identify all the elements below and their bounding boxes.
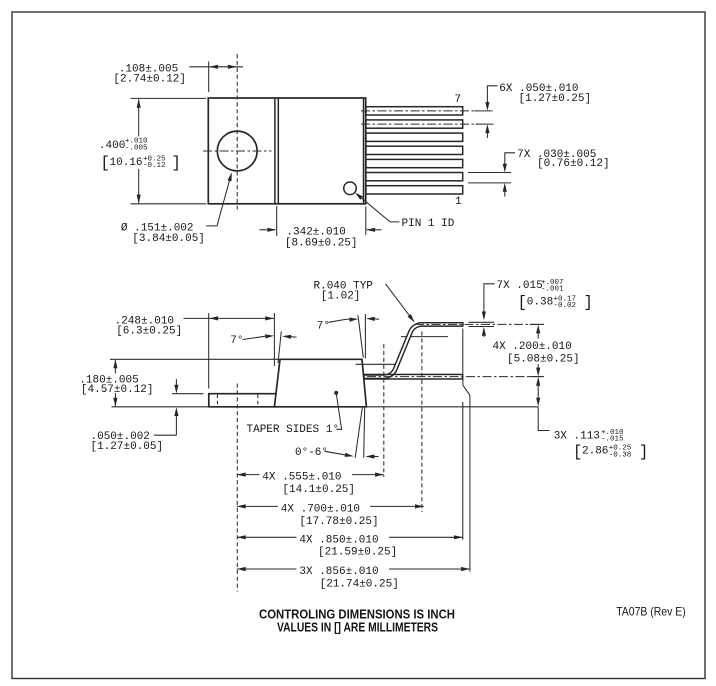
svg-text:3X .113: 3X .113: [554, 431, 600, 443]
top view lead shoulder line: [363, 99, 365, 203]
svg-text:[3.84±0.05]: [3.84±0.05]: [132, 233, 205, 245]
svg-text:7°: 7°: [230, 335, 243, 347]
svg-text:[: [: [518, 294, 527, 312]
lead 6 (top view): [366, 120, 463, 128]
lower lead centerline: [367, 376, 544, 378]
pin 1 ID circle: [344, 182, 357, 195]
lower bend radius center mark: [356, 363, 396, 365]
dimension .180 body height: [79, 359, 279, 407]
lead tip extension line: [462, 329, 464, 374]
svg-text:10.16: 10.16: [110, 157, 143, 169]
side view tab: [209, 394, 276, 407]
0-6 degree lead angle: [295, 407, 379, 459]
top view tab/body parting double line: [275, 98, 278, 204]
dimension 7X .015 lead thickness: [469, 279, 593, 337]
svg-text:[14.1±0.25]: [14.1±0.25]: [282, 484, 355, 496]
right 7-degree draft angle: [317, 314, 379, 359]
dimension 6X .050 lead pitch: [475, 83, 592, 138]
dimension 4X .700: [237, 504, 424, 528]
svg-text:7: 7: [455, 94, 462, 106]
svg-text:PIN 1 ID: PIN 1 ID: [402, 218, 455, 230]
svg-text:-.005: -.005: [125, 144, 148, 152]
straight lead (side view): [364, 374, 463, 379]
hidden hole line right: [257, 395, 259, 407]
svg-text:[: [: [573, 443, 582, 461]
svg-text:[4.57±0.12]: [4.57±0.12]: [81, 384, 154, 396]
svg-text:[1.02]: [1.02]: [321, 291, 361, 303]
svg-text:[5.08±0.25]: [5.08±0.25]: [507, 353, 580, 365]
svg-text:-0.38: -0.38: [609, 451, 632, 459]
svg-text:0.38: 0.38: [527, 296, 553, 308]
svg-text:[21.74±0.25]: [21.74±0.25]: [320, 578, 399, 590]
svg-text:3X .856±.010: 3X .856±.010: [299, 566, 378, 578]
svg-text:[0.76±0.12]: [0.76±0.12]: [537, 158, 610, 170]
upper bend radius center mark: [401, 336, 448, 338]
svg-text:VALUES IN [] ARE MILLIMETERS: VALUES IN [] ARE MILLIMETERS: [277, 620, 438, 635]
chain reference dashed line: [236, 384, 238, 592]
svg-text:[1.27±0.25]: [1.27±0.25]: [519, 93, 592, 105]
lower bend vertical centerline: [383, 344, 385, 477]
svg-text:TAPER SIDES 1°: TAPER SIDES 1°: [247, 424, 339, 436]
top view body outline: [208, 98, 365, 204]
upper bend vertical centerline: [421, 332, 423, 513]
taper sides note: [247, 391, 342, 436]
left 7-degree draft angle: [230, 332, 296, 364]
svg-text:0°-6°: 0°-6°: [295, 447, 328, 459]
svg-text:TA07B (Rev E): TA07B (Rev E): [616, 605, 686, 619]
svg-text:]: ]: [639, 443, 648, 461]
svg-text:[21.59±0.25]: [21.59±0.25]: [318, 547, 397, 559]
svg-text:-.001: -.001: [541, 286, 564, 294]
svg-text:4X .555±.010: 4X .555±.010: [262, 472, 341, 484]
hole horizontal centerline: [203, 150, 272, 152]
svg-text:[8.69±0.25]: [8.69±0.25]: [285, 237, 358, 249]
svg-text:[: [: [101, 154, 110, 172]
hidden hole line left: [216, 395, 218, 407]
svg-text:]: ]: [172, 154, 181, 172]
lead 1 (top view): [366, 186, 463, 194]
svg-text:]: ]: [584, 294, 593, 312]
lead 5 (top view): [366, 133, 463, 141]
dimension hole diameter: [121, 172, 234, 245]
lead 4 (top view): [366, 146, 463, 154]
svg-text:-0.12: -0.12: [143, 162, 166, 170]
dimension .108: [113, 62, 243, 93]
svg-text:-0.02: -0.02: [554, 302, 577, 310]
mounting hole: [217, 131, 257, 171]
svg-text:[17.78±0.25]: [17.78±0.25]: [299, 516, 378, 528]
pin 1 ID leader and label: [354, 191, 455, 230]
lead 3 (top view): [366, 159, 463, 167]
svg-text:7X .015: 7X .015: [497, 280, 543, 292]
upper lead centerline: [415, 323, 544, 325]
svg-text:7°: 7°: [317, 320, 330, 332]
bent lead (side view): [365, 322, 463, 377]
lead 7 (top view): [366, 107, 463, 115]
lead 2 (top view): [366, 173, 463, 181]
lead 7 centerline: [361, 110, 478, 112]
dimension 7X .030 lead width: [468, 149, 610, 197]
svg-text:1: 1: [455, 196, 462, 208]
svg-text:[6.3±0.25]: [6.3±0.25]: [116, 326, 182, 338]
dimension 4X .850: [237, 534, 463, 558]
svg-text:4X .850±.010: 4X .850±.010: [299, 534, 378, 546]
svg-text:4X .200±.010: 4X .200±.010: [493, 341, 572, 353]
dimension .050 tab thickness: [91, 379, 204, 453]
side view body: [274, 359, 366, 407]
svg-text:-.015: -.015: [601, 436, 624, 444]
dimension 4X .555: [237, 472, 384, 496]
dimension .342: [260, 206, 382, 249]
lead 6 centerline: [361, 123, 478, 125]
dimension .400: [99, 98, 206, 203]
svg-text:.400: .400: [99, 140, 125, 152]
dimension 3X .113 lead offset: [536, 377, 648, 461]
svg-text:[2.74±0.12]: [2.74±0.12]: [113, 74, 186, 86]
svg-text:4X .700±.010: 4X .700±.010: [281, 504, 360, 516]
hole vertical centerline: [236, 54, 238, 210]
svg-text:[1.27±0.05]: [1.27±0.05]: [91, 441, 164, 453]
dimension 4X .200 lead row spacing: [493, 324, 580, 376]
lead tip jog extension: [463, 379, 470, 571]
dimension R.040 bend radius: [314, 280, 417, 323]
dimension 3X .856: [237, 566, 470, 590]
footer note: [259, 606, 455, 634]
body bottom extension line: [366, 406, 538, 408]
svg-text:2.86: 2.86: [582, 446, 608, 458]
dimension .248: [115, 313, 275, 389]
